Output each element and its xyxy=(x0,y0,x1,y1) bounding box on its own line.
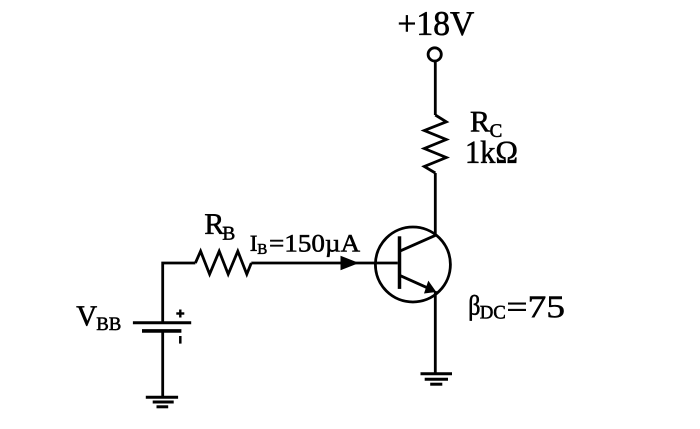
wire: terminal to resistor RC xyxy=(434,62,437,116)
battery VBB negative plate (short) xyxy=(142,329,181,333)
ground (battery) xyxy=(146,397,178,407)
battery VBB positive plate (long) xyxy=(133,321,191,324)
label +18V xyxy=(399,12,474,35)
current direction arrow IB xyxy=(341,256,360,270)
wire: battery to ground xyxy=(161,331,164,397)
label RB: subscript B xyxy=(223,227,234,240)
battery plus sign xyxy=(176,310,184,318)
transistor Q1 collector stroke xyxy=(401,235,436,251)
wire: left corner to resistor RB xyxy=(163,263,196,323)
label RC: subscript C xyxy=(490,124,501,137)
label IB: subscript B xyxy=(258,244,267,254)
terminal node (open circle) at +18V xyxy=(428,48,441,61)
label VBB: subscript BB xyxy=(97,318,121,331)
label VBB: V xyxy=(77,306,97,325)
resistor RC (vertical zigzag) xyxy=(424,115,446,173)
transistor Q1 emitter stroke xyxy=(400,275,434,290)
label RC: R xyxy=(471,112,490,132)
transistor Q1 emitter arrowhead xyxy=(424,281,436,294)
resistor RB (horizontal zigzag) xyxy=(195,251,251,274)
transistor Q1 base bar xyxy=(398,236,402,289)
transistor Q1 (NPN) circle xyxy=(375,227,450,302)
label =75 xyxy=(508,297,563,318)
wire: resistor RB to transistor base xyxy=(251,262,397,265)
wire: emitter to ground xyxy=(434,291,437,374)
ground (emitter) xyxy=(421,374,453,385)
label RB: R xyxy=(205,214,224,234)
label 1kOhm xyxy=(468,141,517,163)
wire: resistor RC to transistor collector xyxy=(434,173,437,236)
label IB: I xyxy=(251,236,257,251)
battery minus sign (vertical tick) xyxy=(179,336,182,344)
label IB: =150uA xyxy=(270,235,360,257)
label beta xyxy=(470,295,480,321)
label beta subscript DC xyxy=(480,306,504,319)
